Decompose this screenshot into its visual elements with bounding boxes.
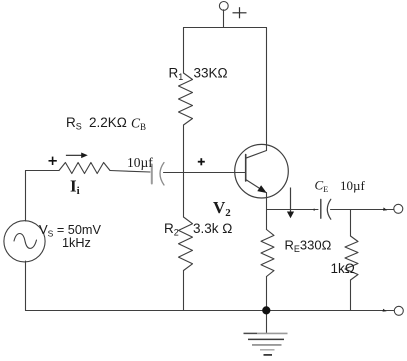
capacitor CE plate xyxy=(320,200,322,219)
node Vcc terminal xyxy=(219,2,228,11)
svg-text:V2: V2 xyxy=(213,198,231,219)
svg-text:CB: CB xyxy=(131,116,146,133)
node tick on output bottom wire xyxy=(383,309,387,312)
transistor Q1 circle xyxy=(235,144,289,198)
resistor RL 1k xyxy=(345,236,358,280)
resistor RE xyxy=(261,230,274,277)
node output top terminal xyxy=(394,204,403,213)
transistor Q1 base bar xyxy=(245,155,247,182)
wire CB to base xyxy=(164,172,246,174)
svg-text:2.2KΩ: 2.2KΩ xyxy=(89,115,127,130)
svg-text:10µf: 10µf xyxy=(127,155,153,170)
node output bottom terminal xyxy=(394,306,403,315)
svg-text:1kHz: 1kHz xyxy=(62,236,91,250)
wire R2 bottom xyxy=(183,271,185,311)
resistor R2 xyxy=(179,217,193,271)
node junction dot emitter-ground xyxy=(262,306,270,314)
plus sign at Rs left xyxy=(49,157,57,165)
svg-text:1kΩ: 1kΩ xyxy=(331,261,355,276)
capacitor CB arc xyxy=(160,163,164,186)
wire Rs to CB xyxy=(110,171,150,173)
wire collector xyxy=(266,28,268,151)
current arrow Ii head xyxy=(81,153,88,159)
svg-text:RS: RS xyxy=(66,115,82,132)
source VS sine xyxy=(14,234,37,249)
current arrow Io head xyxy=(287,212,294,219)
plus sign top supply xyxy=(233,7,247,18)
wire ground stub xyxy=(266,311,268,334)
transistor Q1 emitter diagonal xyxy=(246,180,260,189)
transistor Q1 collector diagonal xyxy=(246,151,267,159)
wire left rail bottom xyxy=(25,261,27,311)
resistor R1 xyxy=(179,73,193,125)
transistor Q1 emitter arrow xyxy=(257,185,267,193)
wire top terminal stub xyxy=(223,10,225,28)
current arrow Ii line xyxy=(66,154,84,156)
capacitor CE arc xyxy=(327,199,331,219)
wire source to Rs xyxy=(26,170,60,172)
svg-text:R1: R1 xyxy=(169,65,184,82)
svg-text:10µf: 10µf xyxy=(340,178,365,193)
capacitor CB plate xyxy=(151,165,153,184)
svg-text:R2: R2 xyxy=(164,221,179,238)
wire 1k top xyxy=(350,210,352,237)
source VS circle xyxy=(4,221,45,262)
svg-text:RE330Ω: RE330Ω xyxy=(285,238,332,255)
wire R1 top xyxy=(183,28,185,74)
wire bottom rail xyxy=(26,310,394,312)
svg-text:Ii: Ii xyxy=(70,176,80,197)
wire CE to output xyxy=(331,209,394,211)
node tick on output top wire xyxy=(383,207,387,210)
plus sign at base node xyxy=(198,158,205,165)
svg-text:CE: CE xyxy=(315,178,329,195)
svg-text:33KΩ: 33KΩ xyxy=(194,65,228,80)
wire R1 bottom to R2 top xyxy=(183,125,185,217)
wire left rail top xyxy=(25,171,27,222)
wire RE bottom xyxy=(266,277,268,311)
svg-text:3.3k Ω: 3.3k Ω xyxy=(193,221,232,236)
resistor RS xyxy=(59,163,110,174)
wire emitter down xyxy=(266,193,268,230)
node speck on emitter wire xyxy=(313,209,315,211)
current arrow Io line xyxy=(290,188,292,213)
wire emitter to CE xyxy=(267,209,319,211)
wire 1k bottom xyxy=(350,280,352,311)
wire top rail xyxy=(184,27,267,29)
ground xyxy=(244,333,288,355)
